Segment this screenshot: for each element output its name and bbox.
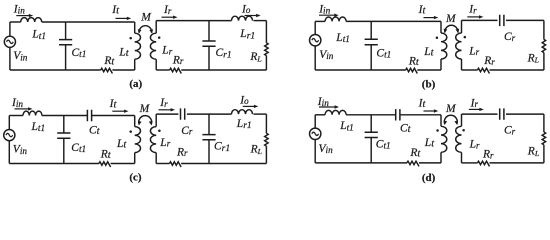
inductor Lt coil (c) xyxy=(134,116,136,127)
svg-text:Iin: Iin xyxy=(13,3,25,15)
svg-text:It: It xyxy=(111,4,120,17)
capacitor Cr (c) xyxy=(181,108,185,119)
svg-text:Lr: Lr xyxy=(161,45,172,57)
svg-text:It: It xyxy=(418,4,427,17)
svg-text:Ir: Ir xyxy=(163,4,172,16)
svg-text:Iin: Iin xyxy=(318,3,330,15)
wire Ct to Lt (d) xyxy=(400,114,441,116)
polarity dot Lt (c) xyxy=(129,130,132,133)
svg-text:It: It xyxy=(109,98,118,111)
bottom wire primary (d) xyxy=(419,162,441,164)
svg-text:Lt: Lt xyxy=(118,46,129,59)
svg-text:Lt1: Lt1 xyxy=(335,32,350,44)
svg-text:Io: Io xyxy=(239,94,249,106)
svg-text:Ct1: Ct1 xyxy=(71,142,86,154)
svg-text:(c): (c) xyxy=(129,172,142,184)
current arrow It (b) xyxy=(424,17,436,19)
current arrow Ir (c) xyxy=(159,109,172,111)
svg-text:Lt: Lt xyxy=(423,46,434,59)
svg-text:Iin: Iin xyxy=(317,96,329,108)
inductor Lr coil (a) xyxy=(155,21,157,34)
svg-text:Lt1: Lt1 xyxy=(339,120,354,132)
current arrow Iin (b) xyxy=(319,14,336,16)
svg-text:Vin: Vin xyxy=(319,143,334,155)
top wire secondary (a) xyxy=(156,20,231,22)
svg-text:Rr: Rr xyxy=(176,146,188,158)
resistor Rt (b) xyxy=(406,68,418,73)
circuit (d) AC source Vin xyxy=(314,115,316,128)
polarity dot Lr (c) xyxy=(158,130,161,133)
inductor Lr1 (c) xyxy=(232,110,253,114)
capacitor Cr (b) xyxy=(500,15,504,26)
inductor Lt1 (a) xyxy=(21,18,42,22)
resistor Rr (a) xyxy=(170,68,182,73)
mutual inductance M arrow (c) xyxy=(139,116,152,125)
polarity dot Lr (a) xyxy=(158,36,161,39)
current arrow It (a) xyxy=(116,17,129,19)
svg-text:Ct: Ct xyxy=(400,123,412,136)
bottom wire primary (b) xyxy=(417,69,441,71)
svg-text:Ir: Ir xyxy=(470,97,479,109)
svg-text:Cr: Cr xyxy=(181,125,193,137)
svg-text:Lr1: Lr1 xyxy=(236,118,252,131)
top wire secondary (d) xyxy=(462,113,498,115)
capacitor Cr (d) xyxy=(500,108,504,119)
svg-text:Cr1: Cr1 xyxy=(216,47,232,60)
wire top-left (c) xyxy=(9,115,23,117)
svg-text:(d): (d) xyxy=(422,172,436,184)
svg-text:Vin: Vin xyxy=(13,144,28,156)
inductor Lt coil (a) xyxy=(134,22,136,33)
circuit (a) AC source Vin xyxy=(9,22,11,36)
current arrow Ir (d) xyxy=(469,108,481,110)
top wire secondary (b) xyxy=(462,19,498,21)
svg-text:Cr1: Cr1 xyxy=(214,141,230,154)
load resistor RL (b) xyxy=(543,20,545,39)
svg-text:Iin: Iin xyxy=(11,97,23,109)
svg-text:Rr: Rr xyxy=(172,54,184,66)
mutual inductance M arrow (d) xyxy=(444,115,457,124)
wire Ct to Lt (c) xyxy=(92,115,135,117)
mutual inductance M arrow (a) xyxy=(139,26,152,33)
inductor Lr coil (c) xyxy=(155,114,157,127)
resistor Rr (b) xyxy=(478,68,490,73)
svg-text:Lr: Lr xyxy=(159,137,170,149)
wire Lt1 to Ct (d) xyxy=(346,114,396,116)
svg-text:Io: Io xyxy=(241,3,251,15)
wire Lt1 to Ct (c) xyxy=(42,115,88,117)
inductor Lt1 (c) xyxy=(23,111,42,115)
capacitor Ct (d) xyxy=(396,109,400,120)
wire Lr1 to RL (c) xyxy=(254,113,267,115)
svg-text:Vin: Vin xyxy=(319,49,334,61)
capacitor Ct1 (b) xyxy=(370,21,372,39)
wire top-left (b) xyxy=(315,20,325,22)
bottom wire primary (a) xyxy=(112,69,134,71)
circuit (b) AC source Vin xyxy=(314,21,316,34)
capacitor Ct1 (a) xyxy=(65,22,67,40)
current arrow Ir (b) xyxy=(467,16,480,18)
capacitor Cr1 (c) xyxy=(208,114,210,135)
load resistor RL (a) xyxy=(265,21,267,43)
svg-text:Ct1: Ct1 xyxy=(376,47,391,59)
resistor Rr (d) xyxy=(478,161,490,166)
polarity dot Lt (b) xyxy=(436,36,439,39)
bottom wire secondary (c) xyxy=(181,163,266,165)
wire Lt1 to Lt (b) xyxy=(346,20,441,22)
svg-text:Rt: Rt xyxy=(408,56,420,69)
svg-text:Rr: Rr xyxy=(482,149,494,161)
wire top-left (a) xyxy=(10,21,21,23)
svg-text:M: M xyxy=(140,11,152,23)
capacitor Ct1 (d) xyxy=(370,115,372,132)
inductor Lt coil (d) xyxy=(440,115,442,127)
load resistor RL (d) xyxy=(543,114,545,132)
svg-text:M: M xyxy=(445,13,457,25)
capacitor Ct (c) xyxy=(87,110,91,121)
svg-text:Lr1: Lr1 xyxy=(239,28,255,41)
svg-text:(a): (a) xyxy=(129,78,142,90)
svg-text:Cr: Cr xyxy=(504,125,516,137)
bottom wire secondary (b) xyxy=(490,69,544,71)
svg-text:Lt: Lt xyxy=(424,137,435,150)
svg-text:Vin: Vin xyxy=(13,50,28,62)
svg-text:Cr: Cr xyxy=(504,31,516,43)
svg-text:M: M xyxy=(139,103,151,115)
current arrow Io (c) xyxy=(243,105,255,107)
svg-text:Ct1: Ct1 xyxy=(72,47,87,59)
current arrow It (c) xyxy=(112,110,125,112)
wire top-left (d) xyxy=(315,114,325,116)
inductor Lt1 (b) xyxy=(325,17,346,21)
current arrow Io (a) xyxy=(245,15,258,17)
svg-text:(b): (b) xyxy=(422,78,436,90)
svg-text:M: M xyxy=(445,103,457,115)
polarity dot Lr (b) xyxy=(464,36,467,39)
current arrow Iin (c) xyxy=(15,108,30,110)
svg-text:Rr: Rr xyxy=(483,55,495,67)
current arrow Ir (a) xyxy=(162,16,175,18)
mutual inductance M arrow (b) xyxy=(445,25,458,32)
svg-text:Rt: Rt xyxy=(103,55,115,68)
inductor Lt coil (b) xyxy=(440,21,442,33)
resistor Rr (c) xyxy=(170,162,182,167)
polarity dot Lr (d) xyxy=(462,129,465,132)
svg-text:It: It xyxy=(418,98,427,111)
svg-text:Ir: Ir xyxy=(159,97,168,109)
resistor Rt (a) xyxy=(101,68,113,73)
capacitor Ct1 (c) xyxy=(63,116,65,134)
svg-text:Ir: Ir xyxy=(468,4,477,16)
capacitor Cr1 (a) xyxy=(208,21,210,41)
bottom wire primary (c) xyxy=(111,163,135,165)
svg-text:Lt1: Lt1 xyxy=(31,29,46,41)
current arrow It (d) xyxy=(424,110,436,112)
svg-text:Lt1: Lt1 xyxy=(31,121,46,133)
current arrow Iin (a) xyxy=(16,15,30,17)
bottom wire secondary (d) xyxy=(490,162,544,164)
svg-text:Ct1: Ct1 xyxy=(376,138,391,150)
svg-text:Lr: Lr xyxy=(468,45,479,57)
inductor Lr coil (d) xyxy=(461,114,463,126)
polarity dot Lt (a) xyxy=(129,37,132,40)
svg-text:Rt: Rt xyxy=(409,147,421,160)
inductor Lt1 (d) xyxy=(325,110,346,114)
top wire secondary (c) xyxy=(156,113,178,115)
current arrow Iin (d) xyxy=(319,106,336,108)
circuit (c) AC source Vin xyxy=(8,116,10,130)
resistor Rt (d) xyxy=(407,161,419,166)
wire Lr1 to RL (a) xyxy=(254,20,267,22)
svg-text:Lr: Lr xyxy=(469,139,480,151)
polarity dot Lt (d) xyxy=(436,129,439,132)
load resistor RL (c) xyxy=(265,114,267,133)
svg-text:Lt: Lt xyxy=(116,138,127,151)
svg-text:Ct: Ct xyxy=(89,125,101,138)
resistor Rt (c) xyxy=(99,162,111,167)
svg-text:Rt: Rt xyxy=(100,149,112,162)
wire Lt1 to Lt (a) xyxy=(42,21,135,23)
bottom wire secondary (a) xyxy=(181,69,266,71)
inductor Lr coil (b) xyxy=(461,20,463,33)
inductor Lr1 (a) xyxy=(232,16,253,20)
